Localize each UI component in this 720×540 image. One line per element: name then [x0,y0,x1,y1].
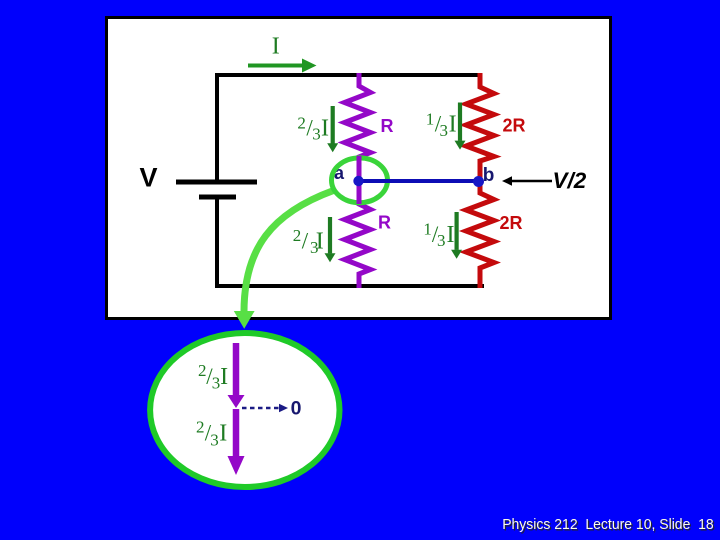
node b dot [473,176,484,187]
svg-text:b: b [483,165,495,186]
wire purple stub through node a [357,156,362,204]
resistor 2R top (red) [466,73,494,178]
svg-text:I: I [272,34,280,60]
node a dot [353,176,363,186]
svg-text:V: V [139,163,157,193]
current arrow I (top wire) [248,59,317,73]
wire node a to node b (blue) [359,179,479,183]
V/2 pointer arrow [502,176,552,185]
current arrow 1/3I top-right [455,103,466,150]
current arrow 2/3I bottom-left [325,217,336,262]
svg-text:V/2: V/2 [553,168,587,193]
arrow 2/3I out of node (ellipse bottom) [228,409,245,475]
battery V short plate [199,195,236,200]
svg-text:2R: 2R [499,213,522,233]
resistor R2 (bottom purple) [345,186,371,288]
resistor R1 (top purple) [345,73,371,176]
magnifier circle around node a [332,158,388,203]
arrow 2/3I into node (ellipse top) [228,343,245,408]
current arrow 1/3I bottom-right [451,212,462,259]
battery V long plate [176,180,257,185]
dashed arrow to 0 (net current) [242,404,288,412]
zoom ellipse (bottom) [150,333,339,487]
svg-text:R: R [381,116,394,136]
svg-text:0: 0 [291,398,302,420]
magnifier tail arrow (light green curve) [234,191,334,329]
wire: circuit outer rectangle (top, left, bottom) [217,75,484,286]
svg-text:R: R [378,212,391,232]
svg-text:Physics 212 Lecture 10, Slide: Physics 212 Lecture 10, Slide 18 [502,516,714,533]
resistor 2R bottom (red) [466,185,494,288]
white panel [107,18,611,319]
current arrow 2/3I top-left [327,106,338,152]
svg-text:2R: 2R [502,116,525,136]
